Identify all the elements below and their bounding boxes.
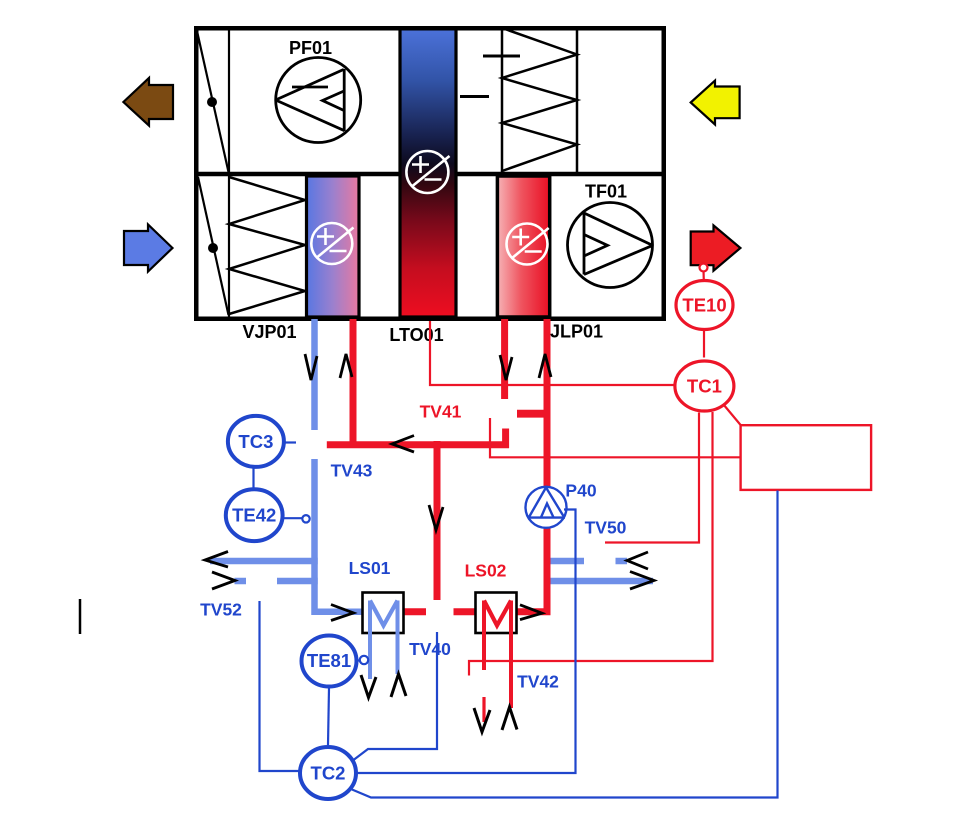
controller TC2 <box>300 747 356 799</box>
outdoor-air arrow (blue) <box>124 225 173 272</box>
wire: blue control line TC2 to P40 <box>356 510 576 774</box>
flow arrow left TV52 upper <box>205 552 228 568</box>
flow arrow down JLP01 left <box>500 355 512 380</box>
heat exchanger LTO01 band <box>400 28 456 317</box>
fan PF01 <box>276 58 361 143</box>
wire: JLP01 right pipe through pump P40 to LS02 <box>517 319 548 612</box>
controller TC3 <box>228 416 284 467</box>
row divider <box>196 172 664 177</box>
exhaust-out arrow (brown) <box>123 78 173 126</box>
flow arrow right TV52 lower <box>212 572 235 589</box>
svg-text:TC3: TC3 <box>238 431 273 452</box>
wire: red branch pipe down to TV40 <box>434 441 441 600</box>
TE10 sensor tap circle <box>702 270 704 281</box>
svg-text:LS02: LS02 <box>465 561 507 581</box>
cooling coil JLP01 band <box>497 176 549 317</box>
TE81 sensor tap circle <box>360 656 368 664</box>
wire: TV40 right stub to LS02 <box>454 608 476 615</box>
svg-text:JLP01: JLP01 <box>550 322 603 342</box>
valve TV41 stub horizontal <box>517 410 551 418</box>
svg-text:TE42: TE42 <box>232 505 276 526</box>
wire: red control line LTO01 to TC1 <box>430 321 741 676</box>
JLP01 plus-minus symbol <box>507 224 549 265</box>
drain arrow down LS01 left <box>361 675 376 698</box>
svg-text:P40: P40 <box>565 481 596 501</box>
flow arrow out of LS02 <box>520 605 542 620</box>
wire: blue control line TV40 to TC2 <box>352 632 438 762</box>
pump P40 <box>526 487 567 528</box>
heating coil VJP01 band <box>307 176 360 317</box>
flow arrow into LS01 <box>331 605 354 621</box>
svg-text:TV41: TV41 <box>420 402 462 422</box>
LS01 drain legs <box>370 601 398 680</box>
filter bottom row <box>229 177 305 314</box>
controller TC1 <box>675 361 734 411</box>
wire: red control line TV41 to controller <box>490 418 740 457</box>
svg-text:PF01: PF01 <box>289 38 332 58</box>
controller box <box>741 425 872 490</box>
damper bottom (intake) <box>198 176 229 319</box>
svg-text:TE81: TE81 <box>307 650 351 671</box>
wire: JLP01 left pipe <box>501 319 508 399</box>
svg-text:LS01: LS01 <box>349 558 391 578</box>
supply-air arrow (red) <box>691 225 741 270</box>
wire: TC1 to controller box diagonal <box>724 405 742 426</box>
filter top row <box>502 28 577 174</box>
flow arrow left on main pipe <box>392 436 414 453</box>
svg-text:TV50: TV50 <box>585 518 627 538</box>
svg-text:TC2: TC2 <box>311 763 346 784</box>
flow arrow left TV50 upper <box>627 552 648 569</box>
flow arrow down on blue pipe <box>205 354 654 732</box>
svg-text:TV40: TV40 <box>409 639 451 659</box>
LTO01 plus-minus symbol <box>406 151 449 193</box>
sensor TE10 <box>676 281 733 330</box>
wire: valve TV52 pipe stubs <box>235 578 318 585</box>
VJP01 plus-minus symbol <box>311 223 353 264</box>
drain arrow up LS01 right <box>391 674 406 697</box>
drain arrow up LS02 right <box>502 707 517 730</box>
extract-air arrow (yellow) <box>691 81 740 125</box>
wire: blue pipe right lower branch <box>550 578 653 585</box>
svg-text:TV52: TV52 <box>200 600 242 620</box>
wire: blue pipe lower segment to LS01 <box>315 459 363 612</box>
wire: blue supply water pipe (VJP01 down, upper segment) <box>210 319 653 612</box>
svg-text:LTO01: LTO01 <box>389 325 443 345</box>
LS02 drain legs <box>484 601 511 723</box>
sensor TE81 <box>302 636 357 687</box>
wire: TC3 test point <box>284 441 296 443</box>
wire: blue control line TC2 to controller box <box>352 491 778 798</box>
wire: red main horizontal pipe <box>327 441 509 448</box>
wire: blue control line TV52 to TC2 <box>254 443 778 798</box>
wire: red return pipe from VJP01 <box>327 319 551 612</box>
LS01 M symbol <box>370 601 398 626</box>
wire: blue pipe right upper branch with TV50 gap <box>550 558 627 565</box>
wire: TE81 to TC2 link <box>328 688 329 745</box>
wire: red control line TC1 to TV50 <box>605 413 699 543</box>
svg-text:VJP01: VJP01 <box>242 322 296 342</box>
flow arrow up on red pipe <box>340 354 352 378</box>
wire: TE42 sensor tap <box>283 517 302 519</box>
flow arrow right TV50 lower <box>630 572 654 590</box>
wire: red control line TC1 to TV42 <box>469 412 713 676</box>
LS02 M symbol <box>484 601 511 626</box>
damper top (exhaust) <box>197 28 229 172</box>
stray tick mark <box>79 599 82 634</box>
AHU casing background <box>196 28 664 319</box>
svg-text:TE10: TE10 <box>682 295 726 316</box>
svg-text:TF01: TF01 <box>585 182 627 202</box>
wire: TE10 to TC1 link <box>703 328 705 358</box>
svg-text:TV43: TV43 <box>331 461 373 481</box>
filter top dash marks <box>460 56 520 97</box>
valve actuator LS01 box <box>363 593 404 634</box>
drain arrow down LS02 left <box>474 708 490 732</box>
wire: LS01 right stub <box>404 608 426 615</box>
valve actuator LS02 box <box>476 593 517 634</box>
TE42 sensor tap circle <box>302 515 309 522</box>
wire: TC3 to TE42 link <box>252 467 254 490</box>
wire: TE81 sensor tap <box>356 659 360 661</box>
svg-text:TV42: TV42 <box>517 672 559 692</box>
flow arrow up JLP01 right <box>539 354 551 378</box>
wire: blue pipe left upper branch <box>210 558 318 565</box>
flow arrow down on branch pipe <box>429 505 443 530</box>
AHU outer border <box>196 28 664 319</box>
svg-text:TC1: TC1 <box>687 376 722 397</box>
valve TV41 stub vertical <box>502 429 509 449</box>
fan TF01 <box>568 203 653 288</box>
sensor TE42 <box>226 489 283 541</box>
